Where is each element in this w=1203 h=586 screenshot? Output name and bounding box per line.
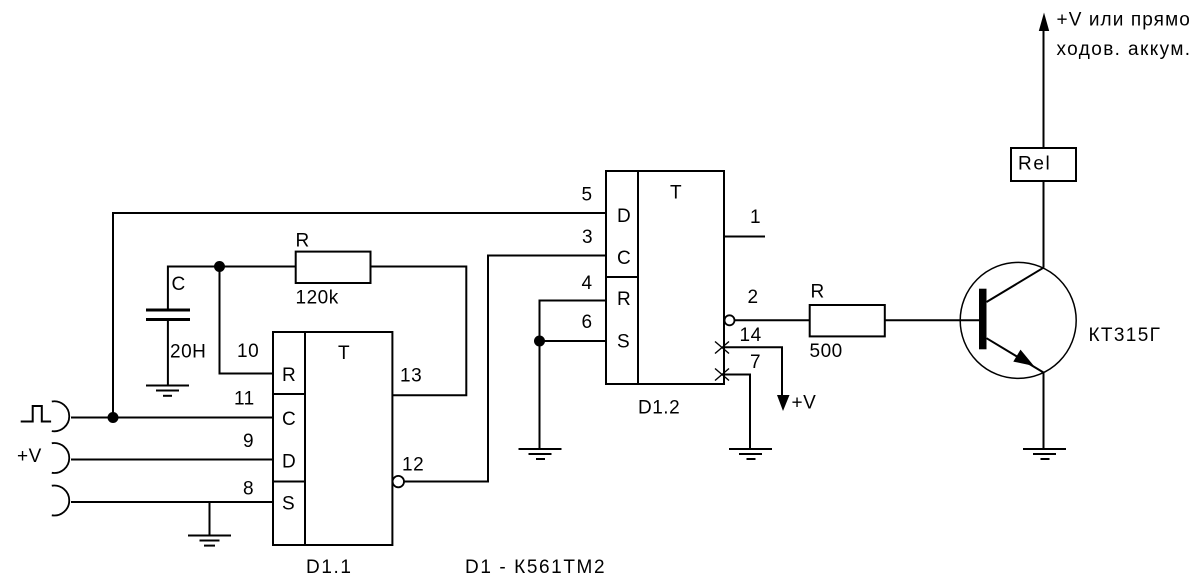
wire: XS1 to D1.1 pin C (11) <box>71 417 273 419</box>
wire: capacitor C1 top lead to junction <box>168 267 220 310</box>
resistor R2 body <box>810 305 885 336</box>
wire: D1.2 pin R (4) to common rail <box>540 301 607 450</box>
capacitor C1 plates <box>146 310 190 320</box>
flip-flop D1.2 body <box>606 171 724 384</box>
terminal XS2 (+V input socket) <box>52 443 69 473</box>
inversion bubble D1.1 pin 12 <box>393 476 404 487</box>
svg-text:1: 1 <box>750 207 761 228</box>
node: junction pulse line / D1.2 D feed <box>108 412 119 423</box>
svg-text:R: R <box>282 365 296 386</box>
svg-text:3: 3 <box>582 227 593 248</box>
wire: D1.2 pin S (6) to common rail <box>540 340 607 342</box>
ground (D1.2 R/S rail) <box>519 449 562 459</box>
svg-text:C: C <box>617 248 631 269</box>
wire: ground stem on S input line <box>209 502 211 536</box>
svg-text:4: 4 <box>582 273 593 294</box>
wire: collector to relay <box>1043 181 1045 268</box>
X mark unused pin 7 <box>715 369 729 381</box>
svg-text:D1 - К561ТМ2: D1 - К561ТМ2 <box>465 557 606 578</box>
svg-text:T: T <box>338 343 350 364</box>
ground (emitter) <box>1023 449 1066 459</box>
svg-text:D: D <box>282 452 296 473</box>
svg-text:10: 10 <box>237 341 259 362</box>
wire: capacitor C1 bottom lead <box>167 320 169 386</box>
svg-text:+V: +V <box>792 393 817 414</box>
svg-text:Rel: Rel <box>1018 154 1051 175</box>
wire: pin 7 to ground <box>723 375 750 450</box>
wire: pin 2 to resistor R2 <box>735 319 810 321</box>
transistor VT1 base bar <box>979 289 987 350</box>
wire: junction down to D1.1 pin R (10) <box>220 267 274 374</box>
svg-text:120k: 120k <box>296 288 339 309</box>
svg-text:13: 13 <box>400 366 422 387</box>
svg-text:5: 5 <box>582 185 593 206</box>
wire: junction to resistor R1 <box>220 266 296 268</box>
relay Rel body <box>1011 148 1076 181</box>
wire: relay to +V arrow <box>1043 27 1045 148</box>
wire: R1 right lead to D1.1 pin 13 <box>371 267 467 396</box>
power +V (down arrow at pin 14) <box>777 395 790 411</box>
ground (input S line) <box>188 536 231 546</box>
svg-text:+V: +V <box>17 446 42 467</box>
svg-text:+V или прямо: +V или прямо <box>1057 10 1191 31</box>
svg-text:D1.2: D1.2 <box>638 398 680 419</box>
wire: R2 to transistor base <box>885 319 979 321</box>
transistor VT1 emitter stroke <box>987 338 1044 372</box>
svg-text:D: D <box>617 206 631 227</box>
terminal XS1 (pulse input socket) <box>52 401 69 431</box>
svg-text:C: C <box>282 409 296 430</box>
svg-text:8: 8 <box>243 479 254 500</box>
svg-text:11: 11 <box>234 389 255 410</box>
wire: junction up and over to D1.2 pin D (5) <box>113 213 606 418</box>
wire: XS2 to D1.1 pin D (9) <box>71 459 273 461</box>
svg-text:S: S <box>282 494 295 515</box>
svg-text:14: 14 <box>740 325 762 346</box>
wire: pin 14 to +V <box>723 347 782 396</box>
wire: D1.2 pin 1 stub <box>724 236 765 238</box>
node: junction R/S rail <box>534 336 545 347</box>
svg-text:R: R <box>296 231 310 252</box>
flip-flop D1.1 body <box>273 332 392 545</box>
resistor R1 body <box>296 252 371 283</box>
svg-text:500: 500 <box>810 341 843 362</box>
svg-text:КТ315Г: КТ315Г <box>1089 325 1162 346</box>
svg-text:12: 12 <box>402 455 424 476</box>
svg-text:ходов. аккум.: ходов. аккум. <box>1057 39 1192 60</box>
svg-text:6: 6 <box>582 312 593 333</box>
svg-text:C: C <box>172 274 186 295</box>
svg-text:7: 7 <box>750 352 761 373</box>
svg-text:R: R <box>811 282 825 303</box>
pulse waveform symbol <box>21 406 51 422</box>
svg-text:9: 9 <box>243 431 254 452</box>
wire: emitter to ground <box>1043 373 1045 450</box>
transistor VT1 collector stroke <box>987 268 1044 302</box>
X mark unused pin 14 <box>715 342 729 354</box>
svg-text:20Н: 20Н <box>170 342 206 363</box>
svg-text:D1.1: D1.1 <box>306 557 353 578</box>
svg-text:2: 2 <box>748 287 759 308</box>
node: junction C1 / R1 / D1.1 pin R <box>214 261 225 272</box>
wire: XS3 to D1.1 pin S (8) <box>71 501 273 503</box>
svg-text:S: S <box>617 332 630 353</box>
terminal XS3 (input socket) <box>52 486 69 516</box>
transistor VT1 emitter arrow <box>1013 350 1034 366</box>
inversion bubble D1.2 pin 2 <box>725 315 735 325</box>
ground (below C1) <box>146 386 189 396</box>
power +V (up arrow supply) <box>1039 13 1049 32</box>
ground (pin 7) <box>729 449 772 459</box>
svg-text:R: R <box>617 289 631 310</box>
transistor VT1 КТ315Г body circle <box>960 262 1076 378</box>
svg-text:T: T <box>670 183 682 204</box>
wire: D1.1 pin 12 to D1.2 pin C (3) <box>404 256 606 482</box>
